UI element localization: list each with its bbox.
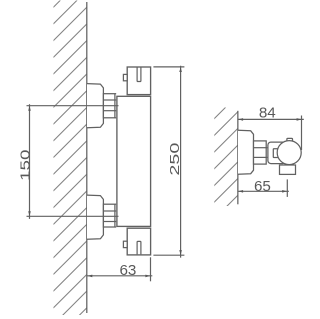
dimension 84 label [259,104,276,121]
dimension 250 extension bottom [153,254,184,256]
bottom handle slot [137,241,141,254]
dimension 65 extension right [286,179,288,197]
valve body (front view) [117,96,151,226]
hex nut bottom (front view) [103,204,116,227]
svg-text:65: 65 [254,178,271,195]
dimension 250 extension top [153,66,184,68]
dimension 65 label [254,178,271,195]
dimension 250 line [179,66,182,258]
bottom handle (front view) [127,228,150,255]
dimension 65 line [238,190,289,193]
dimension 63 extension right [150,257,152,281]
escutcheon bottom (front view) [87,195,103,239]
dimension 150 line [28,104,31,219]
centerline bottom port [27,215,119,217]
body button (side view) [273,149,279,158]
knob circle (side view) [277,141,301,165]
dimension 63 label [119,262,136,279]
dimension 150 label [18,150,32,181]
centerline top port [27,105,119,107]
outlet (side view) [280,165,296,174]
top handle slot [137,68,141,82]
svg-text:63: 63 [119,262,136,279]
top handle (front view) [127,67,150,95]
dimension 84 extension right [301,116,303,151]
wall hatch (side view) [208,91,242,225]
wall face line (side view) [237,111,239,205]
wall face line (front view) [86,2,88,313]
dimension 63 line [87,275,152,278]
svg-text:250: 250 [168,143,183,176]
escutcheon (side view) [238,130,254,174]
wall hatch (front view) [36,0,104,319]
knob button top (side view) [287,138,293,143]
dimension 250 label [168,143,183,176]
top handle tab [123,74,127,80]
valve body profile (side view) [268,142,286,164]
bottom handle tab [123,241,127,247]
hex nut (side view) [254,141,268,164]
svg-text:150: 150 [18,150,32,181]
dimension 84 line [238,118,304,121]
svg-text:84: 84 [259,104,276,121]
escutcheon top (front view) [87,84,103,128]
hex nut top (front view) [103,94,116,118]
